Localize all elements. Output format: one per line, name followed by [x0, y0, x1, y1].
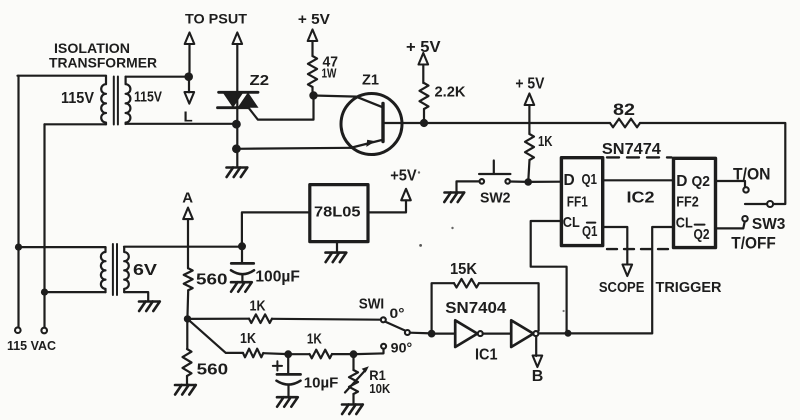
node 47ohm junction	[309, 91, 317, 99]
node R1 junction	[350, 350, 358, 358]
contact SW1 0deg	[381, 317, 386, 322]
wire left AC vertical 2	[43, 124, 45, 327]
svg-text:SCOPE: SCOPE	[599, 280, 645, 296]
svg-text:1K: 1K	[538, 133, 553, 150]
svg-text:A: A	[182, 189, 193, 206]
svg-text:D: D	[676, 173, 687, 190]
speck	[419, 244, 422, 247]
wire diagonal	[188, 319, 244, 353]
svg-text:Q2: Q2	[692, 173, 711, 190]
svg-text:90°: 90°	[391, 339, 413, 355]
wire triac gate	[249, 99, 314, 120]
label Q1bar	[587, 222, 595, 224]
resistor 1K row2b	[310, 350, 333, 359]
power arrow +5V 78L05	[401, 189, 411, 201]
switch SW3 arm	[745, 203, 767, 205]
connector arrow TO PSUT right	[233, 33, 243, 45]
switch SW2 contacts	[480, 179, 485, 184]
contact SW3 common	[767, 201, 773, 207]
triac Z2	[219, 91, 258, 94]
svg-text:2.2K: 2.2K	[435, 84, 466, 101]
svg-text:1W: 1W	[322, 66, 338, 81]
label plus 10uF	[273, 361, 282, 370]
wire Q2bar to TOFF	[716, 222, 745, 229]
contact SW1 pivot	[405, 330, 410, 335]
svg-text:+5V: +5V	[390, 168, 417, 185]
svg-text:FF1: FF1	[567, 194, 588, 211]
node triac MT junction	[232, 120, 241, 129]
ground below SW2	[445, 191, 464, 194]
potentiometer R1 10K	[349, 370, 358, 394]
connector arrow scope trigger	[623, 265, 633, 277]
ground below R1	[342, 403, 362, 406]
svg-text:D: D	[564, 172, 575, 189]
wire B tap	[535, 336, 537, 356]
power arrow +5V 2.2K	[419, 53, 429, 65]
label Q2bar	[695, 224, 705, 226]
wire 6V primary top lead	[19, 246, 106, 248]
wire clock rail	[538, 332, 652, 334]
node triac lower junction	[232, 144, 241, 153]
transformer T1 primary coil 115V	[101, 76, 106, 124]
wire pivot to node	[410, 332, 432, 335]
wire secondary top lead	[126, 76, 189, 78]
contact T/OFF	[742, 216, 747, 221]
ground below 560	[175, 384, 195, 387]
svg-text:Q1: Q1	[582, 223, 598, 240]
wire secondary bottom lead	[126, 123, 237, 125]
svg-text:B: B	[532, 368, 544, 385]
inverter IC1a	[455, 320, 477, 347]
wire left AC vertical 1	[17, 76, 19, 328]
transformer T2 primary coil	[101, 247, 106, 292]
wire SW2 to D	[510, 180, 562, 183]
wire node to IC1a	[432, 333, 456, 335]
connector arrow A	[183, 208, 193, 220]
svg-text:SW2: SW2	[480, 189, 511, 206]
wire feedback right	[479, 283, 539, 331]
resistor 2.2K	[420, 83, 429, 109]
transformer T1 core	[114, 77, 118, 125]
svg-text:+ 5V: + 5V	[515, 76, 544, 93]
svg-text:15K: 15K	[450, 261, 478, 278]
svg-text:560: 560	[197, 361, 229, 378]
svg-text:100µF: 100µF	[255, 268, 300, 285]
svg-text:78L05: 78L05	[314, 204, 361, 221]
wire Q1 to D2	[603, 179, 674, 181]
speck	[418, 171, 420, 173]
resistor 560 lower	[183, 349, 192, 376]
svg-text:6V: 6V	[133, 262, 157, 279]
svg-text:L: L	[184, 108, 193, 125]
wire upper 1K row	[188, 318, 250, 320]
wire CL2 path	[652, 227, 673, 333]
wire main rail	[424, 122, 610, 124]
wire to 10uF node	[263, 352, 288, 355]
svg-text:+ 5V: + 5V	[298, 12, 330, 28]
node AC primary bottom junction	[41, 289, 48, 296]
transistor Z1 body	[341, 94, 402, 155]
connector arrow L down	[188, 81, 190, 92]
wire 90 link	[354, 353, 357, 355]
svg-text:SW3: SW3	[752, 216, 786, 233]
wire SW2 left to ground	[457, 181, 480, 191]
wire 10uF to 1K	[288, 353, 309, 355]
svg-text:FF2: FF2	[676, 194, 699, 211]
transformer T2 secondary coil 6V	[124, 247, 129, 292]
svg-text:0°: 0°	[390, 305, 405, 321]
resistor 15K	[454, 279, 479, 288]
wire Q2 to TON	[716, 181, 746, 187]
node 100uF junction	[238, 242, 246, 250]
resistor 1K pullup	[525, 134, 534, 160]
switch SW1 arm	[386, 322, 406, 331]
wire primary top lead	[18, 75, 107, 77]
inverter IC1b	[511, 320, 533, 347]
node 2.2K junction	[420, 119, 428, 127]
svg-text:1K: 1K	[307, 330, 322, 347]
svg-text:TRANSFORMER: TRANSFORMER	[49, 55, 157, 71]
flip-flop FF2 box	[674, 158, 716, 247]
capacitor 10uF	[287, 354, 289, 374]
svg-text:115 VAC: 115 VAC	[7, 339, 56, 353]
svg-text:82: 82	[613, 101, 635, 119]
switch SW2 plunger	[479, 161, 510, 175]
svg-text:TO PSUT: TO PSUT	[185, 11, 248, 26]
svg-text:115V: 115V	[61, 90, 94, 107]
dashed line top	[607, 156, 672, 158]
wire 78L05 input	[242, 212, 309, 246]
wire between inverters	[483, 333, 511, 335]
speck	[451, 227, 453, 229]
wire 6V primary bottom lead	[45, 291, 106, 293]
dashed line bottom	[607, 248, 672, 250]
node inverter input junction	[428, 330, 436, 338]
terminal 115VAC left	[15, 327, 21, 333]
capacitor 100uF	[241, 246, 243, 263]
wire Z1 base lead	[385, 122, 425, 124]
ground below 10uF	[277, 396, 297, 399]
wire A rail	[124, 246, 242, 248]
wire 78L05 gnd	[336, 242, 338, 252]
svg-text:SN7404: SN7404	[445, 300, 506, 317]
svg-text:T/OFF: T/OFF	[731, 234, 776, 252]
svg-text:Q1: Q1	[582, 171, 598, 188]
svg-text:560: 560	[196, 271, 228, 288]
svg-text:IC2: IC2	[627, 190, 655, 207]
node AC primary top junction	[15, 244, 22, 251]
wire Q1bar to scope	[603, 227, 628, 265]
ground below triac	[227, 166, 247, 169]
power arrow +5V 1K	[525, 94, 535, 106]
contact T/ON	[743, 187, 748, 192]
svg-text:1K: 1K	[240, 330, 256, 347]
resistor 1K upper	[249, 314, 272, 323]
node clock rail junction	[565, 330, 572, 337]
node D junction	[524, 178, 532, 186]
wire 90deg down	[357, 349, 384, 354]
svg-text:Q2: Q2	[694, 226, 710, 243]
transformer T1 secondary coil 115V	[126, 77, 131, 124]
wire 78L05 output	[369, 200, 406, 212]
connector arrow B	[533, 356, 543, 368]
wire to R1 node	[332, 353, 350, 355]
wire collector link	[314, 96, 358, 97]
node L junction dot	[184, 72, 193, 81]
regulator 78L05 box	[310, 185, 368, 242]
resistor 560 upper	[184, 268, 193, 290]
wire CL1 path	[531, 221, 567, 333]
wire emitter line	[236, 148, 351, 149]
svg-text:SWI: SWI	[359, 296, 385, 312]
svg-text:IC1: IC1	[475, 346, 498, 363]
power arrow +5V 47ohm	[308, 30, 318, 42]
svg-text:Z1: Z1	[362, 71, 379, 88]
svg-text:CL: CL	[563, 214, 580, 231]
svg-text:115V: 115V	[134, 90, 162, 106]
resistor 47 1W	[308, 56, 317, 87]
flip-flop FF1 box	[561, 158, 602, 246]
speck	[563, 310, 565, 312]
transformer T2 core	[113, 244, 117, 295]
svg-text:Z2: Z2	[250, 72, 270, 89]
ground below 78L05	[326, 251, 346, 254]
node 10uF junction	[284, 350, 292, 358]
svg-text:TRIGGER: TRIGGER	[656, 280, 723, 296]
resistor 82	[610, 119, 640, 128]
wire 1K to SW1	[272, 318, 381, 321]
svg-text:1K: 1K	[250, 298, 266, 315]
wire primary bottom lead	[45, 123, 107, 125]
svg-text:SN7474: SN7474	[602, 141, 661, 158]
wire 6V secondary bottom	[124, 292, 148, 300]
connector arrow TO PSUT left	[185, 33, 195, 45]
terminal 115VAC right	[41, 328, 47, 334]
node lower-left junction	[184, 315, 191, 322]
ground below 100uF	[231, 281, 251, 284]
ground below 6V secondary	[139, 300, 159, 303]
wire feedback left	[432, 283, 454, 333]
contact SW1 90deg	[381, 344, 386, 349]
resistor 1K row2a	[243, 349, 263, 358]
svg-text:10µF: 10µF	[304, 375, 339, 392]
svg-text:CL: CL	[676, 214, 693, 231]
wire rail right	[640, 123, 785, 204]
svg-text:10K: 10K	[369, 381, 391, 396]
